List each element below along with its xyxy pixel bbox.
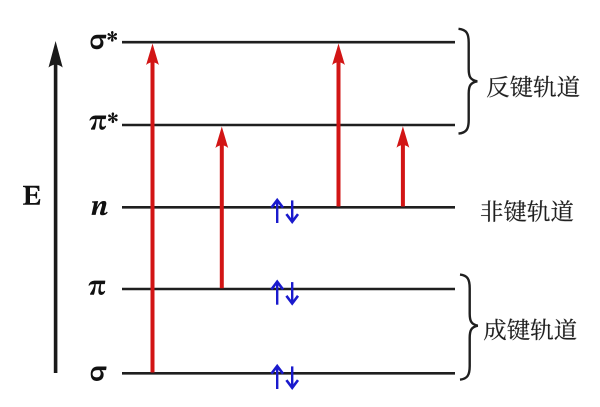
label bonding orbitals 成键轨道	[484, 319, 576, 341]
label pi	[88, 281, 105, 295]
brace bonding	[460, 275, 478, 380]
label n	[92, 201, 108, 215]
sigma-star level line	[122, 41, 455, 44]
n level line	[122, 206, 455, 209]
label pi-star	[89, 112, 117, 129]
red arrow sigma to sigma-star transition	[146, 44, 159, 373]
red arrow n to sigma-star transition	[332, 44, 345, 207]
electron pair on n level	[271, 200, 298, 223]
label antibonding orbitals 反键轨道	[487, 76, 579, 98]
brace antibonding	[459, 29, 478, 134]
electron pair on sigma level	[271, 366, 298, 389]
E axis arrow	[49, 41, 63, 373]
electron pair on pi level	[271, 282, 298, 305]
label nonbonding orbitals 非键轨道	[481, 200, 573, 222]
label sigma-star	[91, 31, 118, 49]
sigma level line	[122, 372, 455, 375]
pi level line	[122, 288, 455, 291]
label E	[23, 186, 40, 205]
red arrow pi to pi-star transition	[215, 127, 228, 289]
pi-star level line	[122, 124, 455, 127]
red arrow n to pi-star transition	[397, 126, 410, 206]
label sigma	[91, 366, 107, 381]
